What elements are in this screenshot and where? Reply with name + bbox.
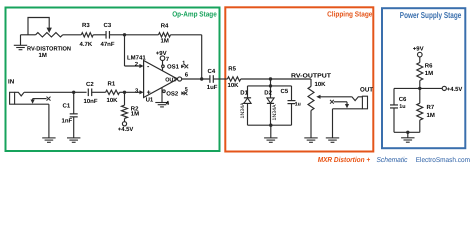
svg-text:R7: R7	[427, 104, 435, 111]
svg-text:1M: 1M	[161, 38, 169, 45]
svg-text:D2: D2	[264, 89, 272, 96]
svg-text:1u: 1u	[295, 101, 301, 107]
svg-text:LM741: LM741	[127, 54, 146, 61]
svg-text:R5: R5	[228, 66, 236, 73]
svg-text:C3: C3	[104, 22, 112, 29]
svg-text:MXR Distortion +: MXR Distortion +	[318, 155, 371, 164]
svg-text:C5: C5	[281, 88, 289, 95]
svg-text:Schematic: Schematic	[377, 155, 408, 164]
svg-text:U1: U1	[146, 96, 154, 103]
svg-text:OS2: OS2	[166, 91, 179, 98]
svg-text:+4.5V: +4.5V	[447, 86, 463, 93]
svg-text:10K: 10K	[228, 82, 240, 89]
svg-text:Clipping Stage: Clipping Stage	[327, 9, 372, 18]
svg-text:RV-DISTORTION: RV-DISTORTION	[27, 45, 71, 52]
svg-text:1u: 1u	[399, 104, 405, 110]
svg-text:5: 5	[185, 87, 188, 93]
svg-text:C4: C4	[208, 68, 216, 75]
svg-text:OS1: OS1	[167, 64, 180, 71]
svg-text:C2: C2	[86, 81, 94, 88]
svg-text:+9V: +9V	[413, 45, 424, 52]
svg-text:OUT: OUT	[165, 78, 177, 84]
svg-text:1M: 1M	[425, 70, 433, 77]
svg-text:Power Supply Stage: Power Supply Stage	[400, 10, 462, 20]
svg-text:1M: 1M	[39, 52, 47, 59]
svg-text:C6: C6	[399, 96, 407, 103]
svg-text:1uF: 1uF	[207, 84, 218, 91]
svg-text:R1: R1	[108, 81, 116, 88]
svg-text:10K: 10K	[315, 81, 327, 88]
svg-text:R6: R6	[425, 62, 433, 69]
svg-text:47nF: 47nF	[101, 41, 115, 48]
svg-text:10K: 10K	[107, 97, 119, 104]
svg-text:+: +	[147, 90, 151, 97]
svg-text:1N34A: 1N34A	[240, 102, 246, 118]
svg-text:10nF: 10nF	[84, 98, 98, 105]
svg-text:R4: R4	[161, 23, 169, 30]
svg-text:4.7K: 4.7K	[80, 41, 93, 48]
svg-text:1: 1	[182, 61, 185, 67]
svg-text:1M: 1M	[427, 112, 435, 119]
svg-text:IN: IN	[8, 79, 15, 86]
svg-text:1M: 1M	[131, 110, 139, 117]
svg-text:ElectroSmash.com: ElectroSmash.com	[416, 156, 470, 164]
svg-text:1N34A: 1N34A	[272, 104, 278, 120]
svg-text:C1: C1	[63, 102, 71, 109]
svg-text:R3: R3	[82, 22, 90, 29]
svg-text:D1: D1	[240, 89, 248, 96]
svg-text:OUT: OUT	[360, 86, 373, 93]
svg-text:1nF: 1nF	[62, 118, 73, 125]
svg-text:+4.5V: +4.5V	[118, 126, 134, 133]
svg-text:RV-OUTPUT: RV-OUTPUT	[291, 72, 331, 79]
svg-text:Op-Amp Stage: Op-Amp Stage	[172, 10, 217, 19]
